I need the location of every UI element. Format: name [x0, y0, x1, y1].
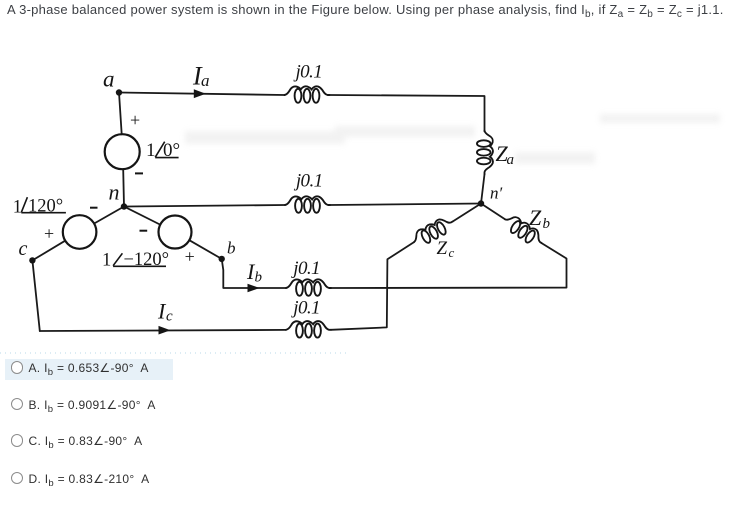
svg-text:a: a [507, 152, 515, 168]
svg-text:b: b [255, 270, 263, 286]
wire n to source V3 [124, 207, 160, 225]
wire c-line to inductor [40, 330, 286, 331]
option D text [29, 472, 150, 486]
svg-text:1: 1 [102, 251, 111, 271]
minus sign V1 [135, 172, 143, 174]
wire source V2 to c [32, 241, 65, 261]
option A radio [11, 361, 24, 374]
svg-text:a: a [103, 67, 115, 92]
scan smudge group (decorative) [185, 114, 720, 164]
inductor j0.1 neutral line [285, 196, 330, 213]
option A text [29, 361, 149, 375]
svg-text:c: c [449, 245, 455, 260]
current arrow Ib [248, 284, 260, 293]
option C text [29, 434, 143, 448]
svg-text:b: b [543, 216, 551, 232]
wire Zb to n' [481, 204, 505, 220]
svg-text:n′: n′ [490, 184, 503, 203]
source V1 1/0 [105, 134, 140, 169]
wire Za to node n' [481, 174, 485, 203]
node b [219, 256, 225, 262]
svg-text:a: a [201, 71, 210, 90]
inductor j0.1 phase b [286, 279, 331, 296]
svg-text:+: + [185, 247, 195, 267]
wire source V1 to n [122, 169, 125, 206]
wire c down to c-line [32, 260, 39, 331]
wire b-line inductor to right riser up to Zb [331, 243, 567, 288]
node a [116, 89, 122, 95]
svg-text:+: + [130, 110, 140, 130]
wire inductor to corner and down to Za [330, 95, 485, 132]
current arrow Ia [194, 89, 206, 98]
current arrow Ic [159, 326, 171, 335]
svg-text:c: c [166, 309, 173, 325]
wire n to middle inductor [124, 205, 285, 207]
option D radio [11, 472, 24, 485]
svg-text:n: n [109, 180, 120, 205]
faint artifact dotted line [0, 352, 350, 354]
svg-text:j0.1: j0.1 [293, 170, 323, 191]
svg-text:b: b [227, 238, 236, 257]
source V3 1/-120 [159, 216, 192, 249]
wire c-line inductor to left riser up to Zc [331, 242, 414, 330]
svg-text:j0.1: j0.1 [290, 258, 320, 279]
svg-text:1: 1 [146, 140, 156, 161]
source V2 1/120 [63, 215, 97, 249]
svg-text:j0.1: j0.1 [290, 298, 320, 319]
minus sign V2 [90, 207, 98, 209]
wire Zc to n' [453, 204, 482, 222]
inductor Za [477, 131, 493, 175]
node n' [478, 200, 484, 206]
wire n to source V2 [94, 207, 124, 224]
wire b down to b-line [222, 259, 286, 288]
svg-text:Z: Z [529, 205, 542, 230]
inductor Zc [410, 214, 456, 249]
node n [121, 203, 127, 209]
svg-text:1: 1 [13, 197, 22, 217]
option A highlight [5, 359, 173, 380]
inductor Zb [501, 212, 546, 249]
inductor j0.1 phase a [285, 86, 330, 103]
svg-text:j0.1: j0.1 [292, 61, 322, 82]
option B radio [11, 398, 24, 411]
node c [29, 257, 35, 263]
wire middle inductor to n' [330, 204, 481, 206]
wire a to inductor [119, 93, 285, 96]
svg-text:120°: 120° [28, 197, 63, 217]
minus sign V3 [140, 230, 148, 232]
svg-text:Z: Z [437, 238, 448, 259]
option C radio [11, 434, 24, 447]
svg-text:c: c [19, 238, 28, 260]
option B text [29, 398, 156, 412]
inductor j0.1 phase c [286, 321, 331, 338]
wire a down to source V1 [119, 93, 122, 135]
svg-text:+: + [44, 224, 54, 244]
question title [7, 2, 724, 17]
wire source V3 to b [189, 240, 221, 259]
